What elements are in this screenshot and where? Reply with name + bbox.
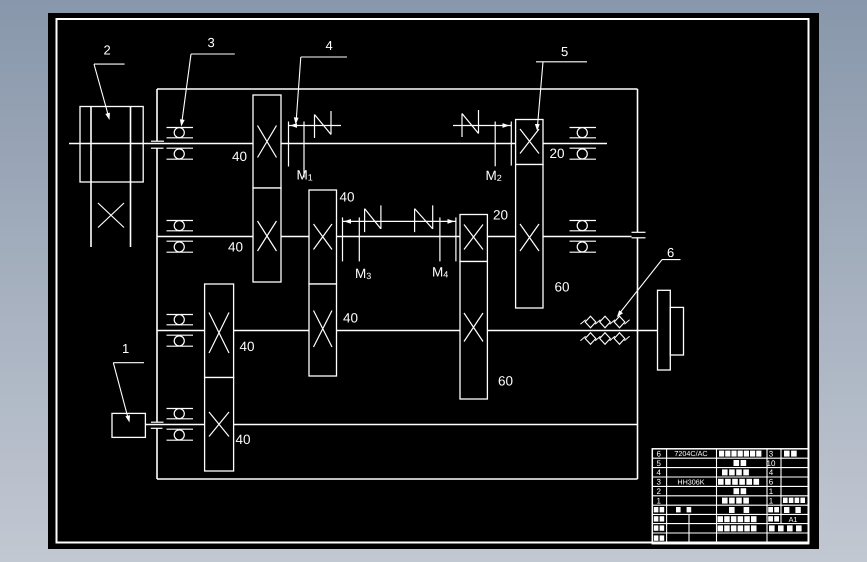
gear D box upper (z20 on shaft I) [516, 120, 543, 165]
coupling tick above shaft IV at casing wall [151, 421, 164, 423]
callout 2 leader [94, 64, 125, 116]
gear E lower cross [209, 412, 229, 437]
bearing pair shaft II left [167, 220, 194, 222]
shaft IV centerline [146, 424, 638, 426]
gearbox casing right wall lower segment [637, 238, 639, 479]
coupling tick above shaft I at casing wall [151, 140, 164, 142]
bearing pair shaft IV left [167, 408, 194, 410]
svg-text:4: 4 [657, 468, 662, 477]
title block CJK text row6 name [719, 451, 724, 457]
svg-text:40: 40 [228, 240, 243, 255]
gear C box lower (z60 on shaft III) [460, 262, 487, 400]
motor block [80, 107, 143, 183]
callout 3 leader [182, 54, 235, 123]
gear D upper cross [520, 129, 539, 154]
clutch M3 engagement arrow [344, 219, 351, 224]
callout 1 leader [113, 363, 144, 419]
svg-text:40: 40 [236, 432, 251, 447]
coupling dash ticks [580, 320, 585, 324]
callout 5 arrowhead [535, 124, 540, 131]
svg-text:1: 1 [657, 496, 662, 505]
callout 4 leader [296, 57, 347, 121]
output gear coupling diamonds lower row [585, 333, 596, 345]
clutch M1 engagement arrow [290, 123, 297, 128]
svg-text:4: 4 [326, 38, 333, 53]
callout 6 arrowhead [617, 310, 623, 317]
title block CJK text row2 name [734, 488, 740, 494]
motor block inner divider right [130, 107, 132, 183]
callout 1 arrowhead [125, 415, 130, 422]
title block header cells [654, 507, 659, 512]
bearing pair shaft I right [570, 127, 597, 129]
support tick above shaft II at right wall [632, 231, 646, 233]
svg-text:40: 40 [232, 149, 247, 164]
clutch M4 outer bar [455, 217, 457, 261]
gear A lower cross [258, 221, 277, 251]
title block CJK text row1 remark [783, 498, 788, 503]
gear cluster B box upper (z40 on shaft II) [309, 190, 337, 284]
clutch M2 jaw symbol N [462, 110, 479, 137]
callout 3 arrowhead [180, 119, 185, 126]
callout 4 arrowhead [294, 117, 299, 124]
clutch M3 jaw symbol N [365, 205, 381, 232]
callout 2 arrowhead [105, 113, 110, 120]
shaft II centerline [157, 236, 632, 238]
bearing pair shaft II right [570, 220, 597, 222]
svg-text:20: 20 [550, 146, 565, 161]
gear C box upper (z20 on shaft II) [460, 215, 487, 262]
gear C upper cross [464, 225, 483, 250]
svg-text:3: 3 [208, 35, 215, 50]
gear cluster E box upper (z40 on shaft III) [205, 284, 234, 378]
svg-text:3: 3 [657, 478, 662, 487]
gearbox casing right wall upper segment [637, 89, 639, 232]
output flange plate [658, 290, 671, 370]
clutch M2 actuation line [453, 125, 511, 127]
gearbox casing left wall middle segment [156, 148, 158, 422]
gearbox casing top wall [157, 88, 638, 90]
svg-text:20: 20 [493, 208, 508, 223]
svg-text:HH306K: HH306K [677, 477, 704, 486]
bearing pair shaft III left [167, 314, 194, 316]
gear E upper cross [209, 313, 229, 354]
clutch M4 engagement arrow [448, 219, 455, 224]
svg-text:3: 3 [769, 449, 774, 458]
svg-text:4: 4 [769, 468, 774, 477]
title block CJK text row6 remark [784, 451, 790, 457]
title block CJK text row1 name [722, 498, 728, 504]
svg-text:A1: A1 [789, 515, 798, 524]
belt drive cross symbol [98, 203, 124, 228]
belt drive right side line [130, 182, 132, 247]
svg-text:40: 40 [240, 339, 255, 354]
title block vertical rules [667, 449, 781, 544]
gear A upper cross [258, 126, 277, 158]
clutch M4 jaw symbol N [415, 205, 433, 232]
bearing pair shaft I left [167, 127, 194, 129]
svg-text:60: 60 [498, 374, 513, 389]
gear cluster B box lower (z40 on shaft III) [309, 284, 337, 376]
clutch M3 outer bar [342, 217, 344, 261]
shaft III centerline [157, 330, 658, 332]
gear cluster A box upper (z40 on shaft I) [253, 95, 281, 188]
belt drive left side line [90, 182, 92, 247]
callout 6 leader [619, 260, 681, 314]
title block CJK text row5 name [734, 460, 740, 466]
input block 1 (bottom left) [112, 413, 145, 437]
clutch M1 actuation line [289, 125, 342, 127]
shaft I centerline [69, 143, 607, 145]
title block CJK text row3 name [718, 479, 724, 485]
svg-text:10: 10 [767, 459, 776, 468]
svg-text:60: 60 [555, 280, 570, 295]
svg-text:6: 6 [769, 478, 774, 487]
support tick below shaft II at right wall [632, 237, 646, 239]
title block bottom row7 labels and title text [654, 516, 659, 521]
clutch M2 sliding bar right [510, 122, 512, 166]
gear B lower cross [314, 311, 333, 348]
svg-text:5: 5 [561, 44, 568, 59]
gear D lower cross [520, 224, 539, 251]
svg-text:2: 2 [657, 487, 662, 496]
gearbox casing left wall upper segment (to shaft I coupling) [156, 89, 158, 141]
coupling tick below shaft I at casing wall [151, 147, 164, 149]
svg-text:7204C/AC: 7204C/AC [674, 449, 707, 458]
clutch M1 jaw symbol N [315, 111, 332, 138]
svg-text:5: 5 [657, 459, 662, 468]
title block bottom row8 labels and title text [654, 525, 659, 530]
clutch M1 sliding bar right [303, 122, 305, 178]
coupling tick below shaft IV at casing wall [151, 427, 163, 429]
gear C lower cross [464, 313, 483, 342]
svg-text:1: 1 [122, 341, 129, 356]
title block CJK text row4 name [722, 469, 728, 475]
clutch M1 sliding bar left [288, 122, 290, 167]
output gear coupling diamonds upper row [585, 316, 596, 328]
output flange hub [670, 307, 683, 355]
svg-text:6: 6 [667, 245, 674, 260]
clutch M4 inner bar [439, 217, 441, 261]
svg-text:6: 6 [657, 449, 662, 458]
clutch M3 inner bar [358, 217, 360, 261]
callout 5 leader [536, 62, 587, 127]
motor block inner divider left [90, 107, 92, 183]
gear B upper cross [314, 224, 333, 250]
svg-text:40: 40 [343, 311, 358, 326]
svg-text:40: 40 [340, 190, 355, 205]
clutch M3-M4 actuation line [343, 220, 456, 222]
title block horizontal rules [652, 458, 808, 533]
gear cluster E box lower (z40 on shaft IV) [205, 378, 234, 472]
gearbox casing bottom wall [157, 478, 638, 480]
title block bottom row9 label [654, 535, 659, 540]
svg-text:1: 1 [769, 496, 774, 505]
gear cluster A box lower (z40 on shaft II) [253, 188, 281, 282]
svg-text:1: 1 [769, 487, 774, 496]
gear D box lower (z60 on shaft II) [516, 165, 543, 309]
gearbox casing left wall lower segment [156, 428, 158, 479]
clutch M2 engagement arrow [503, 123, 510, 128]
title block outer frame [652, 449, 808, 544]
clutch M2 sliding bar left [494, 122, 496, 167]
svg-text:2: 2 [104, 43, 111, 58]
